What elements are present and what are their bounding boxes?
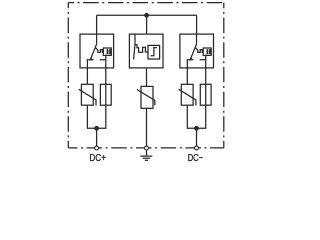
dash-dot enclosure border top [68,2,224,4]
disconnector box U2 (middle branch) [129,34,163,68]
disconnector box U3 (DC- branch) [180,34,214,84]
varistor RV2 (middle branch) [137,86,155,108]
dash-dot enclosure border left [67,3,69,148]
dash-dot enclosure border bottom [68,147,224,149]
wire top bus [97,14,197,16]
wire middle branch to varistor [146,68,148,87]
disconnector box U1 (DC+ branch) [80,34,114,84]
terminal DC+ [95,146,99,150]
dash-dot enclosure border right [223,3,225,148]
wire to DC+ terminal [96,128,98,146]
wire drop middle branch [146,15,148,34]
varistor RV1 (DC+ branch) [79,84,96,105]
wire middle branch to earth terminal [146,108,148,146]
wire to DC- terminal [196,128,198,146]
svg-text:DC−: DC− [188,153,203,164]
wire drop right branch [196,15,198,34]
wire drop left branch [96,15,98,34]
junction node right bar [194,126,199,131]
svg-text:DC+: DC+ [89,153,106,164]
fuse F1 (DC+ branch) [100,84,111,105]
wire joining bar left branch [87,105,105,128]
terminal DC- [195,146,199,150]
terminal earth [145,146,149,150]
varistor RV3 (DC- branch) [179,84,196,105]
junction node bus-middle [144,13,149,18]
junction node left bar [94,126,99,131]
earth symbol [140,150,152,160]
wire joining bar right branch [187,105,205,128]
fuse F2 (DC- branch) [200,84,211,105]
